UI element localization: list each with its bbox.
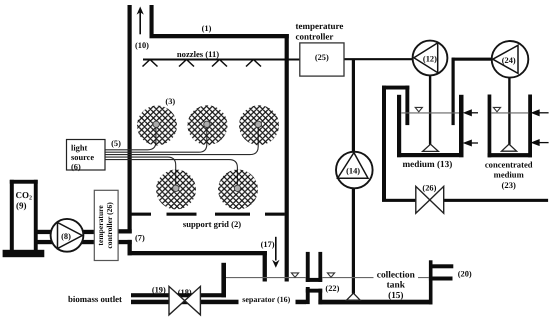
svg-text:light: light — [71, 144, 87, 153]
svg-text:(22): (22) — [325, 284, 339, 293]
svg-text:(18): (18) — [178, 288, 192, 297]
svg-text:(14): (14) — [346, 167, 360, 176]
svg-text:temperature: temperature — [296, 21, 344, 31]
svg-text:controller: controller — [296, 31, 334, 41]
svg-text:medium: medium — [494, 169, 525, 179]
svg-text:(1): (1) — [202, 24, 212, 33]
svg-text:(7): (7) — [135, 234, 145, 243]
svg-text:(24): (24) — [502, 56, 516, 65]
svg-text:(15): (15) — [388, 290, 403, 300]
svg-text:temperature: temperature — [96, 205, 105, 246]
svg-text:(9): (9) — [16, 201, 27, 211]
svg-text:(19): (19) — [152, 286, 166, 295]
svg-text:(26): (26) — [422, 184, 436, 193]
svg-text:source: source — [71, 153, 94, 162]
svg-text:(12): (12) — [423, 55, 437, 64]
svg-text:(3): (3) — [165, 97, 175, 106]
svg-text:biomass outlet: biomass outlet — [68, 294, 122, 304]
svg-text:support grid (2): support grid (2) — [183, 219, 241, 229]
svg-text:(17): (17) — [261, 240, 275, 249]
svg-text:(8): (8) — [61, 232, 71, 241]
svg-text:separator (16): separator (16) — [242, 295, 290, 304]
svg-text:concentrated: concentrated — [485, 159, 533, 169]
svg-text:(23): (23) — [502, 180, 516, 190]
svg-text:nozzles (11): nozzles (11) — [177, 49, 219, 59]
svg-text:(20): (20) — [458, 269, 472, 278]
svg-text:(10): (10) — [135, 41, 149, 50]
svg-text:(5): (5) — [111, 139, 121, 148]
svg-text:medium (13): medium (13) — [403, 159, 453, 169]
svg-text:tank: tank — [387, 280, 406, 290]
svg-text:controller (26): controller (26) — [105, 202, 114, 249]
svg-text:collection: collection — [377, 271, 416, 281]
svg-text:(25): (25) — [315, 53, 329, 62]
svg-text:(6): (6) — [71, 162, 81, 171]
